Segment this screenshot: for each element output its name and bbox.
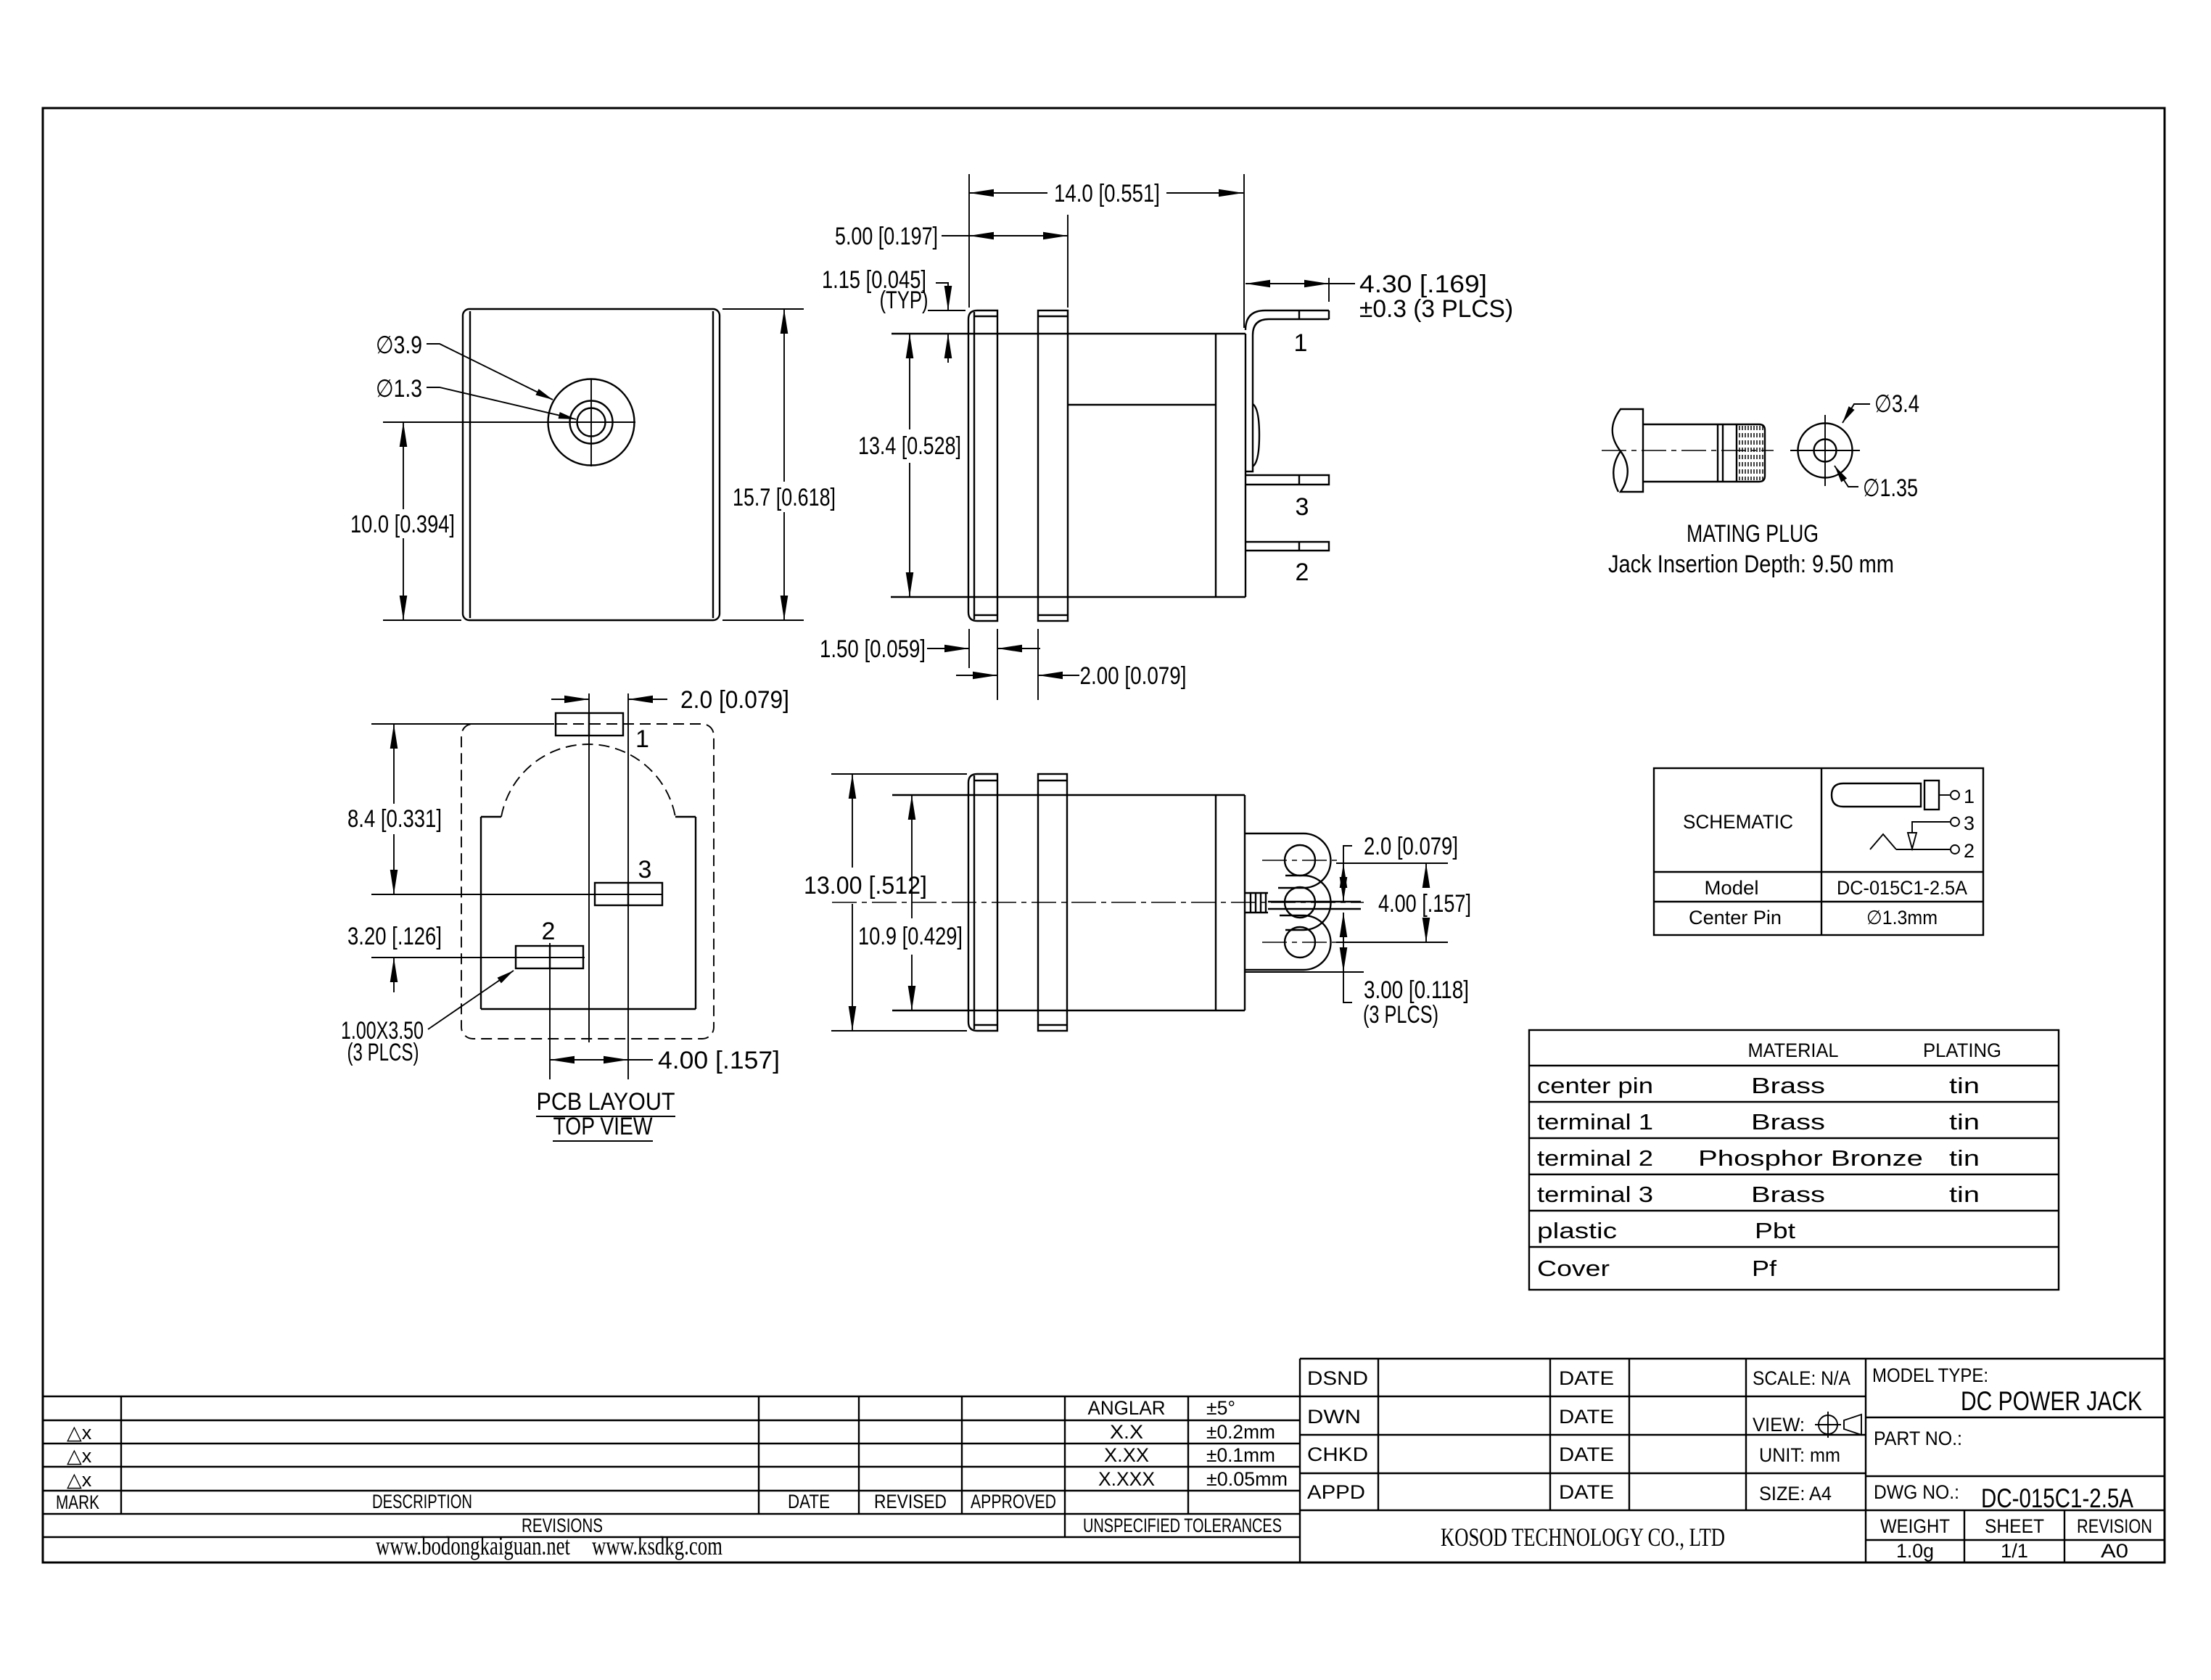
schematic center pin contact needle <box>1908 833 1916 849</box>
materials row line 4 <box>1529 1174 2059 1175</box>
svg-text:X.XX: X.XX <box>1104 1444 1149 1466</box>
plug end view crosshair horizontal <box>1790 450 1860 451</box>
svg-text:SCALE: N/A: SCALE: N/A <box>1753 1367 1850 1389</box>
terminal pin 3 <box>1246 475 1329 485</box>
dimension 1.15 reference line <box>928 310 965 311</box>
side view: body step line <box>1068 404 1216 405</box>
dimension 2.0 right arrow <box>628 699 667 700</box>
title block row line dwn <box>1300 1434 1866 1436</box>
dimension 10.0 line lower segment <box>403 538 404 620</box>
schematic symbol: sleeve block <box>1924 781 1939 810</box>
side view: nut plate <box>1038 310 1068 621</box>
underline TOP VIEW <box>553 1140 653 1142</box>
svg-text:UNIT: mm: UNIT: mm <box>1759 1444 1840 1466</box>
svg-text:terminal 3: terminal 3 <box>1537 1182 1653 1207</box>
bottom view: body top edge <box>892 794 1245 796</box>
svg-text:1/1: 1/1 <box>2001 1540 2028 1562</box>
svg-text:2.0 [0.079]: 2.0 [0.079] <box>1364 833 1458 860</box>
pin 1 rivet bump <box>1253 404 1259 466</box>
svg-text:tin: tin <box>1949 1073 1980 1098</box>
materials row line 6 <box>1529 1246 2059 1248</box>
plug end view inner circle <box>1814 440 1837 462</box>
model block divider <box>1865 1359 1866 1562</box>
dimension 14.0 extension left <box>968 174 970 308</box>
bottom view: body bottom edge <box>892 1010 1245 1011</box>
model type row line <box>1866 1417 2165 1418</box>
dimension 15.7 line lower segment <box>783 512 785 620</box>
dimension 14.0 extension right <box>1243 174 1245 328</box>
svg-text:center pin: center pin <box>1537 1073 1653 1098</box>
svg-text:±5°: ±5° <box>1206 1397 1235 1419</box>
dimension 1.15 leader down arrow <box>936 283 948 310</box>
bottom view: rear cover line <box>1215 795 1216 1010</box>
svg-text:tin: tin <box>1949 1109 1980 1135</box>
svg-text:terminal 1: terminal 1 <box>1537 1109 1653 1135</box>
dimension 2.0 left arrow <box>551 699 589 700</box>
dimension 2.00 left arrow <box>956 675 997 676</box>
svg-text:1: 1 <box>1964 786 1975 807</box>
schematic switch lever <box>1870 834 1896 849</box>
dimension 13.00 line upper segment <box>852 774 853 868</box>
plug end view outer circle <box>1798 424 1853 478</box>
svg-text:±0.3 (3 PLCS): ±0.3 (3 PLCS) <box>1359 295 1513 323</box>
dimension 2.00 extension right <box>1037 629 1039 700</box>
title block outline left edge <box>1299 1359 1301 1562</box>
svg-text:WEIGHT: WEIGHT <box>1880 1515 1950 1537</box>
svg-text:X.XXX: X.XXX <box>1098 1468 1155 1490</box>
plug barrel bottom <box>1643 481 1737 482</box>
svg-text:A0: A0 <box>2101 1540 2128 1562</box>
svg-text:CHKD: CHKD <box>1307 1444 1368 1465</box>
schematic terminal 3 node <box>1951 818 1959 826</box>
view symbol cone <box>1844 1415 1861 1435</box>
center pin collar <box>1246 893 1268 913</box>
pad 2 <box>516 946 583 968</box>
dimension 2.0 leader bracket <box>1343 846 1352 863</box>
schematic terminal 2 node <box>1951 845 1959 854</box>
svg-text:1.0g: 1.0g <box>1896 1540 1934 1562</box>
revised column divider <box>858 1396 860 1514</box>
tolerance block divider <box>1187 1396 1189 1514</box>
dimension 13.00 extension bottom <box>831 1030 967 1032</box>
svg-text:4.30 [.169]: 4.30 [.169] <box>1359 271 1487 298</box>
svg-text:PCB LAYOUT: PCB LAYOUT <box>537 1088 675 1116</box>
front view: horizontal centerline <box>383 421 635 423</box>
revisions block horizontal line 4 <box>43 1466 1300 1467</box>
svg-text:2.0 [0.079]: 2.0 [0.079] <box>680 686 789 714</box>
title block top edge <box>1300 1358 2165 1359</box>
dimension 1.15 up arrow <box>947 334 949 363</box>
svg-text:∅3.4: ∅3.4 <box>1874 390 1919 418</box>
svg-text:14.0 [0.551]: 14.0 [0.551] <box>1054 180 1160 207</box>
dimension 14.0 line left segment <box>969 192 1047 194</box>
bottom flange inner fold top <box>974 780 997 781</box>
dimension 10.9 extension bottom <box>892 1010 991 1011</box>
dimension 4.30 lead line <box>1329 283 1355 284</box>
dimension 3.00 leader bracket <box>1343 972 1352 1002</box>
pin 3 tick <box>1298 475 1300 485</box>
terminal lug 2 bottom <box>1245 915 1331 970</box>
svg-text:MATING PLUG: MATING PLUG <box>1687 520 1819 548</box>
dimension 8.4 line lower segment <box>393 834 395 894</box>
svg-text:ANGLAR: ANGLAR <box>1088 1397 1166 1419</box>
schematic wire to terminal 2 <box>1896 849 1950 850</box>
leader for 1.3 <box>427 387 576 419</box>
dimension 3.20 arrow <box>393 958 395 992</box>
extension line hole1 center <box>1336 862 1448 864</box>
side view: body right edge <box>1245 334 1246 597</box>
weight column divider <box>1964 1510 1965 1562</box>
dimension 1.50 left arrow <box>927 648 969 649</box>
front view: center pin circle 1.3 <box>577 408 606 437</box>
svg-text:8.4 [0.331]: 8.4 [0.331] <box>347 805 442 833</box>
leader 3.4 <box>1842 404 1870 423</box>
svg-text:Brass: Brass <box>1751 1182 1825 1207</box>
svg-text:5.00 [0.197]: 5.00 [0.197] <box>835 223 938 250</box>
svg-text:DATE: DATE <box>1559 1481 1614 1503</box>
bottom flange inner fold bottom <box>974 1024 997 1026</box>
bottom nut inner top line <box>1038 780 1067 781</box>
svg-text:DATE: DATE <box>1559 1444 1614 1465</box>
centerline horizontal pad3 <box>371 894 662 895</box>
svg-text:MATERIAL: MATERIAL <box>1748 1039 1839 1061</box>
svg-text:REVISION: REVISION <box>2077 1515 2152 1537</box>
dimension 4.00 line upper segment <box>1425 863 1427 886</box>
svg-text:2: 2 <box>1296 559 1309 586</box>
svg-text:MODEL TYPE:: MODEL TYPE: <box>1872 1364 1988 1386</box>
svg-text:10.9 [0.429]: 10.9 [0.429] <box>858 923 963 950</box>
schematic table row line 1 <box>1654 871 1983 873</box>
pcb layout: jack outline left step <box>481 816 501 818</box>
nut plate inner bottom line <box>1038 614 1068 616</box>
title block row line chkd <box>1300 1473 1866 1474</box>
dimension 10.9 extension top <box>892 794 991 796</box>
svg-text:SHEET: SHEET <box>1985 1515 2044 1537</box>
dimension 13.00 extension top <box>831 773 967 775</box>
schematic table vertical divider <box>1821 768 1822 935</box>
centerline vertical pad3 <box>627 693 629 1079</box>
scale column divider <box>1745 1359 1747 1510</box>
materials row line 3 <box>1529 1137 2059 1139</box>
plug handle outline <box>1613 409 1643 492</box>
front view: jack cover outline <box>463 309 720 620</box>
date column divider <box>758 1396 759 1514</box>
leader for 3.9 <box>427 344 553 400</box>
extension line hole2 center <box>1336 942 1448 943</box>
dimension 5.00 extension right <box>1067 215 1069 308</box>
materials row line 2 <box>1529 1101 2059 1103</box>
revisions block horizontal line 2 <box>43 1420 1300 1421</box>
bottom view: body right edge <box>1244 795 1246 1010</box>
leader 1.35 <box>1835 466 1858 487</box>
lug hole 2 <box>1285 927 1315 958</box>
dimension 4.30 line <box>1246 283 1329 284</box>
dimension 13.4 line upper segment <box>909 334 910 429</box>
revisions block horizontal line 6 <box>43 1513 1300 1515</box>
svg-text:terminal 2: terminal 2 <box>1537 1145 1653 1171</box>
svg-text:MARK: MARK <box>56 1491 99 1513</box>
pcb layout: jack outline right wall <box>695 817 696 1009</box>
tolerance block left edge <box>1064 1396 1066 1537</box>
plug centerline <box>1602 450 1774 451</box>
svg-text:REVISED: REVISED <box>874 1491 947 1512</box>
dimension 2.00 right arrow <box>1038 675 1079 676</box>
date value column divider <box>1629 1359 1630 1510</box>
view symbol circle <box>1819 1415 1837 1434</box>
knurl texture <box>1739 426 1763 480</box>
side view: body bottom edge <box>891 596 1246 598</box>
dimension 5.00 lead line <box>942 235 969 236</box>
svg-text:Model: Model <box>1705 877 1759 899</box>
weight sheet header row line <box>1866 1539 2165 1541</box>
dimension 10.9 line upper segment <box>911 795 913 918</box>
svg-text:1: 1 <box>1294 329 1308 357</box>
svg-text:X.X: X.X <box>1110 1421 1143 1443</box>
schematic wire to terminal 1 <box>1939 794 1950 796</box>
centerline horizontal pad2 <box>371 957 585 958</box>
svg-text:△x: △x <box>67 1445 92 1467</box>
pad 3 split line <box>627 883 629 905</box>
front view: vertical centerline <box>590 379 592 466</box>
svg-text:plastic: plastic <box>1537 1218 1617 1243</box>
dimension 14.0 line right segment <box>1166 192 1243 194</box>
svg-text:±0.1mm: ±0.1mm <box>1206 1444 1275 1466</box>
svg-text:2: 2 <box>1964 840 1975 862</box>
dimension 15.7 extension line top <box>722 308 804 310</box>
svg-text:(3 PLCS): (3 PLCS) <box>1363 1001 1438 1029</box>
svg-text:PLATING: PLATING <box>1923 1039 2001 1061</box>
pad 3 <box>595 883 662 905</box>
materials row line 5 <box>1529 1210 2059 1211</box>
dimension 4.00 lead line <box>628 1059 653 1061</box>
svg-text:3: 3 <box>1296 493 1309 521</box>
dimension 10.9 line lower segment <box>911 955 913 1010</box>
pad 1 <box>556 713 623 736</box>
extension line lug bottom <box>1245 971 1364 973</box>
plug barrel top <box>1643 424 1737 425</box>
underline PCB LAYOUT <box>536 1116 675 1117</box>
svg-text:www.ksdkg.com: www.ksdkg.com <box>592 1531 722 1560</box>
part no row line <box>1866 1475 2165 1477</box>
svg-text:1: 1 <box>635 725 649 753</box>
svg-text:SIZE: A4: SIZE: A4 <box>1759 1483 1832 1504</box>
svg-text:DC-015C1-2.5A: DC-015C1-2.5A <box>1981 1483 2133 1513</box>
svg-text:△x: △x <box>67 1469 92 1491</box>
svg-text:3: 3 <box>638 856 652 884</box>
revisions block horizontal line 7 <box>43 1536 1300 1538</box>
materials table outline <box>1529 1030 2059 1290</box>
side view: mounting flange plate <box>968 310 997 621</box>
schematic terminal 1 node <box>1951 791 1959 799</box>
centerline vertical pad1 <box>588 693 590 1042</box>
plug knurled tip outline <box>1737 424 1765 482</box>
svg-text:VIEW:: VIEW: <box>1753 1414 1805 1436</box>
schematic table row line 2 <box>1654 901 1983 902</box>
mark column divider <box>120 1396 122 1514</box>
svg-text:∅1.3: ∅1.3 <box>376 375 422 403</box>
svg-text:13.00 [.512]: 13.00 [.512] <box>804 872 927 899</box>
svg-text:∅1.35: ∅1.35 <box>1863 474 1918 502</box>
sheet column divider <box>2064 1510 2065 1562</box>
front view: cover folded edge right <box>712 311 714 618</box>
svg-text:tin: tin <box>1949 1145 1980 1171</box>
flange inner fold bottom <box>974 614 997 616</box>
dimension 8.4 extension top <box>371 723 554 725</box>
dimension 3.00 arrows <box>1343 913 1344 972</box>
svg-text:15.7 [0.618]: 15.7 [0.618] <box>733 484 836 511</box>
revisions block horizontal line 5 <box>43 1490 1300 1491</box>
svg-text:1.50 [0.059]: 1.50 [0.059] <box>820 635 926 663</box>
svg-text:2.00 [0.079]: 2.00 [0.079] <box>1080 662 1187 690</box>
name column divider <box>1378 1359 1379 1510</box>
bottom view: nut plate <box>1038 774 1067 1031</box>
center pin shaft <box>1268 902 1361 909</box>
svg-text:Pbt: Pbt <box>1755 1218 1795 1243</box>
svg-text:Brass: Brass <box>1751 1109 1825 1135</box>
svg-text:KOSOD TECHNOLOGY CO., LTD: KOSOD TECHNOLOGY CO., LTD <box>1441 1523 1725 1552</box>
dimension 10.0 extension line bottom <box>383 619 461 621</box>
svg-text:DATE: DATE <box>1559 1406 1614 1428</box>
bottom view: centerline <box>832 902 1364 903</box>
svg-text:3.20 [.126]: 3.20 [.126] <box>347 923 442 950</box>
svg-text:4.00 [.157]: 4.00 [.157] <box>1378 890 1471 918</box>
dimension 5.00 line <box>969 235 1068 236</box>
title block row line dsnd <box>1300 1396 1866 1397</box>
schematic symbol: plug barrel <box>1832 783 1921 807</box>
hole 2 centerline <box>1262 942 1342 943</box>
svg-text:±0.05mm: ±0.05mm <box>1206 1468 1288 1490</box>
svg-text:Center Pin: Center Pin <box>1689 907 1782 928</box>
svg-text:DWG NO.:: DWG NO.: <box>1874 1481 1959 1503</box>
terminal lug center pin <box>1285 876 1331 930</box>
dimension 10.0 line upper segment <box>403 422 404 509</box>
svg-text:Phosphor Bronze: Phosphor Bronze <box>1698 1145 1923 1171</box>
dimension 13.4 line lower segment <box>909 463 910 597</box>
plug handle break leaf <box>1613 451 1621 492</box>
svg-text:DWN: DWN <box>1307 1406 1361 1428</box>
side view: rear cover line <box>1215 334 1216 597</box>
pad 1 split line <box>588 713 590 736</box>
dimension 1.50 extension right shared <box>997 629 998 700</box>
date label column divider <box>1549 1359 1551 1510</box>
svg-text:3: 3 <box>1964 812 1975 834</box>
pin 2 tick <box>1298 542 1300 551</box>
pcb layout: jack outline right step <box>675 816 696 818</box>
approved column divider <box>961 1396 963 1514</box>
dimension 1.50 right arrow <box>997 648 1040 649</box>
svg-text:DESCRIPTION: DESCRIPTION <box>372 1491 472 1512</box>
plug barrel ring 1 <box>1717 424 1718 482</box>
svg-text:(3 PLCS): (3 PLCS) <box>347 1039 419 1066</box>
pin 1 tick <box>1298 310 1300 319</box>
svg-text:4.00 [.157]: 4.00 [.157] <box>658 1047 780 1074</box>
plug end view crosshair vertical <box>1824 415 1826 486</box>
hole 1 centerline <box>1262 860 1342 861</box>
centerline vertical pad2 <box>549 943 551 1079</box>
flange inner fold vertical <box>973 312 975 619</box>
svg-text:Brass: Brass <box>1751 1073 1825 1098</box>
terminal pin 2 <box>1246 542 1329 551</box>
dimension 15.7 extension line bottom <box>722 619 804 621</box>
svg-text:DATE: DATE <box>788 1491 830 1512</box>
svg-text:3.00 [0.118]: 3.00 [0.118] <box>1364 976 1469 1004</box>
lug hole 1 <box>1285 845 1315 876</box>
svg-text:UNSPECIFIED TOLERANCES: UNSPECIFIED TOLERANCES <box>1083 1515 1282 1536</box>
schematic wire to terminal 3 <box>1912 822 1950 833</box>
svg-text:DATE: DATE <box>1559 1367 1614 1389</box>
front view: cover folded edge left <box>469 311 471 618</box>
bottom flange inner fold vertical <box>973 775 975 1029</box>
front view: hole circle 3.9 <box>570 401 613 444</box>
front view: boss circle <box>548 379 635 466</box>
svg-text:Jack Insertion Depth: 9.50 mm: Jack Insertion Depth: 9.50 mm <box>1608 551 1894 578</box>
materials row line 1 <box>1529 1065 2059 1066</box>
svg-text:△x: △x <box>67 1422 92 1444</box>
dimension 15.7 line upper segment <box>783 309 785 482</box>
svg-text:SCHEMATIC: SCHEMATIC <box>1683 811 1793 833</box>
dimension 13.00 line lower segment <box>852 904 853 1031</box>
pcb layout: jack outline bottom <box>481 1008 696 1010</box>
svg-text:APPROVED: APPROVED <box>971 1491 1056 1512</box>
revisions block horizontal line 3 <box>43 1443 1300 1444</box>
terminal lug 1 top <box>1245 833 1330 888</box>
pcb layout: barrel dashed arc <box>501 744 675 817</box>
dimension 4.30 extension at pin tip <box>1328 278 1330 302</box>
dimension 1.50 extension left <box>968 629 970 668</box>
bottom view: mounting flange plate <box>968 774 997 1031</box>
svg-text:TOP VIEW: TOP VIEW <box>553 1113 653 1140</box>
svg-text:±0.2mm: ±0.2mm <box>1206 1421 1275 1443</box>
svg-text:13.4 [0.528]: 13.4 [0.528] <box>858 432 961 460</box>
terminal pin 1 bent tab <box>1246 310 1329 472</box>
pcb layout: jack outline left wall <box>480 817 482 1009</box>
svg-text:Pf: Pf <box>1752 1256 1776 1281</box>
svg-text:DC-015C1-2.5A: DC-015C1-2.5A <box>1837 877 1967 899</box>
schematic table outline <box>1654 768 1983 935</box>
svg-text:(TYP): (TYP) <box>880 287 929 314</box>
leader 1.00X3.50 <box>428 971 514 1029</box>
svg-text:Cover: Cover <box>1537 1256 1610 1281</box>
side view: body top edge <box>892 333 1246 334</box>
svg-text:tin: tin <box>1949 1182 1980 1207</box>
bottom nut inner bottom line <box>1038 1024 1067 1026</box>
pad 2 split line <box>549 946 551 968</box>
dimension 8.4 line upper segment <box>393 724 395 804</box>
svg-text:PART NO.:: PART NO.: <box>1874 1428 1962 1449</box>
svg-text:10.0 [0.394]: 10.0 [0.394] <box>350 511 455 538</box>
svg-text:DC POWER JACK: DC POWER JACK <box>1961 1386 2142 1416</box>
svg-text:2: 2 <box>542 918 556 945</box>
svg-text:∅1.3mm: ∅1.3mm <box>1866 907 1938 928</box>
dimension 2.0 arrows <box>1343 863 1344 902</box>
svg-text:www.bodongkaiguan.net: www.bodongkaiguan.net <box>376 1531 570 1560</box>
svg-text:∅3.9: ∅3.9 <box>376 332 422 359</box>
revisions block horizontal line 1 <box>43 1396 1300 1397</box>
flange inner fold top <box>974 316 997 317</box>
lug hole center <box>1285 887 1315 918</box>
pcb layout: dashed board outline <box>461 724 714 1039</box>
svg-text:APPD: APPD <box>1307 1481 1365 1503</box>
plug barrel ring 3 <box>1736 424 1737 482</box>
dimension 4.00 line <box>550 1059 628 1061</box>
nut plate inner top line <box>1038 316 1068 317</box>
dimension 4.00 line lower segment <box>1425 921 1427 942</box>
plug barrel ring 2 <box>1722 424 1724 482</box>
title block row line appd <box>1300 1510 2165 1511</box>
svg-text:DSND: DSND <box>1307 1367 1368 1389</box>
view symbol crosshair <box>1815 1412 1841 1438</box>
